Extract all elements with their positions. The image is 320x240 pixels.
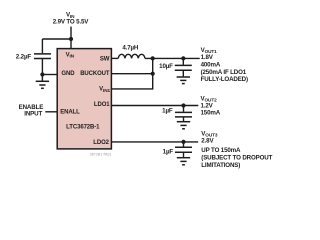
svg-text:LIMITATIONS): LIMITATIONS)	[201, 162, 240, 169]
wire SW node down to VIN1	[152, 58, 154, 89]
capacitor C2 10uF	[175, 58, 192, 76]
wire LDO1 pin to VOUT2	[111, 105, 198, 107]
svg-text:VIN1: VIN1	[99, 87, 110, 93]
svg-text:GND: GND	[61, 71, 75, 77]
junction C2 on VOUT1 rail	[181, 56, 185, 60]
svg-text:1µF: 1µF	[162, 107, 173, 114]
ground symbol at C3	[177, 122, 190, 129]
svg-text:2.8V: 2.8V	[201, 138, 214, 145]
node VOUT3 label	[201, 130, 272, 169]
svg-text:UP TO 150mA: UP TO 150mA	[201, 147, 241, 154]
svg-text:INPUT: INPUT	[24, 110, 42, 117]
junction SW output node	[151, 56, 155, 60]
ground symbol at C4	[177, 158, 190, 165]
junction C1 / GND wire	[40, 72, 44, 76]
wire BUCKOUT pin to node	[111, 73, 152, 75]
junction BUCKOUT node	[151, 72, 155, 76]
wire SW pin to inductor L1	[111, 57, 118, 59]
node VOUT2 label	[201, 95, 221, 116]
junction C4 on VOUT3 rail	[181, 140, 185, 144]
svg-text:(250mA IF LDO1: (250mA IF LDO1	[201, 69, 247, 76]
svg-text:150mA: 150mA	[201, 109, 221, 116]
ENABLE INPUT label	[19, 104, 44, 117]
svg-text:FULLY-LOADED): FULLY-LOADED)	[201, 76, 248, 83]
svg-text:LTC3672B-1: LTC3672B-1	[66, 125, 100, 131]
wire VIN1 pin to node	[111, 88, 153, 90]
wire LDO2 pin to VOUT3	[111, 141, 198, 143]
junction VIN node	[69, 37, 73, 41]
wire ENABLE INPUT to ENALL pin	[45, 111, 57, 113]
svg-text:1µF: 1µF	[163, 148, 174, 155]
capacitor C3 1uF	[175, 106, 192, 122]
inductor L1	[118, 54, 145, 58]
svg-text:(SUBJECT TO DROPOUT: (SUBJECT TO DROPOUT	[201, 155, 272, 162]
svg-text:3672B1 TA01: 3672B1 TA01	[90, 152, 112, 156]
wire C1 to GND pin	[42, 74, 57, 76]
svg-text:2.9V TO 5.5V: 2.9V TO 5.5V	[53, 18, 90, 25]
svg-text:4.7µH: 4.7µH	[122, 44, 139, 51]
ground symbol at C1	[36, 81, 49, 88]
capacitor C4 1uF	[175, 142, 192, 158]
wire VIN vertical into IC	[70, 27, 72, 49]
junction C3 on VOUT2 rail	[181, 103, 185, 107]
capacitor C1 2.2uF	[34, 39, 51, 81]
IC U1 LTC3672B-1 body	[57, 49, 111, 149]
svg-text:VIN: VIN	[66, 52, 75, 58]
svg-text:10µF: 10µF	[159, 63, 173, 70]
svg-text:BUCKOUT: BUCKOUT	[80, 71, 110, 77]
svg-text:1.8V: 1.8V	[201, 54, 214, 61]
wire L1 to VOUT1	[145, 57, 200, 59]
wire VIN node to capacitor C1	[42, 38, 71, 40]
svg-text:LDO1: LDO1	[94, 102, 110, 108]
svg-text:LDO2: LDO2	[93, 140, 109, 146]
svg-text:ENALL: ENALL	[60, 110, 80, 116]
svg-text:SW: SW	[100, 56, 110, 62]
node VOUT1 label	[201, 47, 248, 83]
ground symbol at C2	[177, 77, 190, 84]
svg-text:400mA: 400mA	[201, 61, 221, 68]
svg-text:2.2µF: 2.2µF	[16, 53, 32, 60]
node VIN supply label	[53, 11, 90, 25]
